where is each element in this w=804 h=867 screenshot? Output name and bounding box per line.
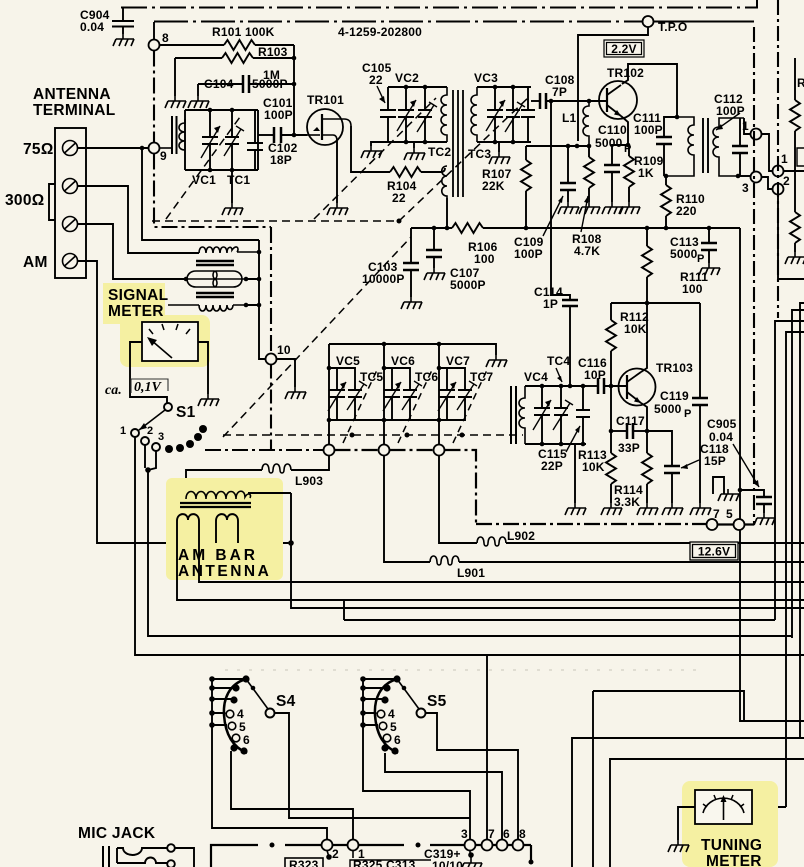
svg-text:5000: 5000 <box>654 402 682 416</box>
trimmer TC2 <box>417 87 437 142</box>
S1 contact 2 <box>141 425 153 445</box>
svg-text:7P: 7P <box>552 85 567 99</box>
gang diagonal VC6 <box>398 370 432 443</box>
svg-text:0.04: 0.04 <box>80 20 104 34</box>
svg-text:TR101: TR101 <box>307 93 344 107</box>
ground at R103 left <box>165 96 186 108</box>
svg-text:VC7: VC7 <box>446 354 470 368</box>
antenna coupling coil <box>160 119 186 150</box>
shield terminal 1 <box>742 118 762 140</box>
AM BAR ANTENNA highlight <box>166 478 283 580</box>
S1 contact dots <box>165 425 207 453</box>
main AGC column down right side <box>738 228 804 721</box>
svg-text:12.6V: 12.6V <box>698 545 730 559</box>
svg-text:VC2: VC2 <box>395 71 419 85</box>
shield terminal 5 <box>726 507 745 530</box>
VC4 tank coil <box>519 386 525 444</box>
screw terminal AM <box>63 254 78 269</box>
TR102 emitter wire <box>621 116 630 147</box>
antenna coupling coil core <box>172 116 177 154</box>
svg-text:5000: 5000 <box>595 136 623 150</box>
svg-text:5: 5 <box>239 720 246 734</box>
svg-text:100: 100 <box>474 252 495 266</box>
resistor R110 220 <box>661 176 705 230</box>
FM balun transformer <box>199 247 259 253</box>
shield chain: node9 down and right to balun top <box>154 154 271 228</box>
shield chain: node8 to node9 <box>153 51 155 143</box>
svg-text:1K: 1K <box>638 166 654 180</box>
TR101 source to ground <box>336 141 338 203</box>
svg-text:2: 2 <box>783 174 790 188</box>
resistor R323 box <box>285 851 332 867</box>
capacitor C108 7P <box>531 73 607 109</box>
headphone jack contacts 7 5 <box>713 477 739 501</box>
svg-text:100: 100 <box>682 282 703 296</box>
TR103 top rail <box>611 301 700 306</box>
svg-text:ANTENNA: ANTENNA <box>33 86 111 103</box>
S4 contact 5 <box>228 722 236 730</box>
shield terminal under VC5 <box>324 445 335 456</box>
capacitor C904 <box>112 8 134 35</box>
shield chain vertical right <box>753 27 755 524</box>
svg-text:10000P: 10000P <box>362 272 405 286</box>
winding A right leg to bus <box>199 529 804 582</box>
svg-text:R101 100K: R101 100K <box>212 25 275 39</box>
capacitor C101 100P <box>258 96 307 143</box>
bottom exit bus <box>593 691 744 721</box>
R325 C313 labels <box>350 851 431 867</box>
svg-text:10K: 10K <box>582 460 605 474</box>
svg-text:10: 10 <box>277 343 291 357</box>
svg-text:22: 22 <box>369 73 383 87</box>
S4 contact 4 <box>226 710 234 718</box>
svg-text:L1: L1 <box>562 111 577 125</box>
svg-text:22K: 22K <box>482 179 505 193</box>
svg-text:VC3: VC3 <box>474 71 498 85</box>
svg-text:VC6: VC6 <box>391 354 415 368</box>
svg-text:8: 8 <box>162 31 169 45</box>
oscillator feedback winding <box>442 166 447 198</box>
resistor R112 10K <box>606 303 649 388</box>
resistor R104 22 <box>387 167 445 205</box>
transistor TR102 <box>599 81 637 119</box>
VC3 tank box <box>477 85 531 145</box>
gang dot VC5 <box>350 433 355 438</box>
svg-text:R323: R323 <box>289 858 319 867</box>
svg-text:METER: METER <box>706 853 762 867</box>
TR103 emitter wire <box>641 403 649 433</box>
secondary winding B <box>216 514 238 529</box>
switch S4 left contact column <box>209 676 245 751</box>
svg-text:AM: AM <box>23 254 48 271</box>
terminal strip box <box>55 128 86 278</box>
svg-text:C905: C905 <box>707 417 737 431</box>
VC2 box left ground <box>371 142 388 146</box>
svg-text:P: P <box>697 253 705 265</box>
svg-text:22: 22 <box>392 191 406 205</box>
svg-text:6: 6 <box>394 733 401 747</box>
T2 secondary coil <box>713 118 752 178</box>
svg-text:18P: 18P <box>270 153 292 167</box>
svg-text:C117: C117 <box>616 414 645 428</box>
TR101 drain to R104 <box>351 126 390 172</box>
winding B legs to AM wire <box>216 529 238 543</box>
svg-text:5000P: 5000P <box>450 278 486 292</box>
screw terminal 75ohm <box>63 141 78 156</box>
gang dashed diagonal through VC3 <box>399 96 530 221</box>
svg-text:3: 3 <box>742 181 749 195</box>
terminal 2 <box>322 840 333 851</box>
terminal 7 <box>482 840 493 851</box>
capacitor C110 5000P <box>595 123 632 202</box>
svg-text:T.P.O: T.P.O <box>658 20 687 34</box>
svg-text:7: 7 <box>713 507 720 521</box>
C114 column from C108 node <box>550 101 552 295</box>
2.2V label box <box>604 40 644 57</box>
svg-text:6: 6 <box>503 827 510 841</box>
svg-text:TC6: TC6 <box>415 370 438 384</box>
variable capacitor VC6 <box>383 368 401 420</box>
variable capacitor VC2 <box>397 87 416 142</box>
svg-text:8: 8 <box>519 827 526 841</box>
svg-text:TC1: TC1 <box>227 173 250 187</box>
balun core bottom <box>196 293 234 297</box>
gang dashed diagonal through VC1 <box>166 117 240 219</box>
svg-text:R325 C313: R325 C313 <box>353 858 416 867</box>
node 10 to ground <box>277 359 296 387</box>
S5 arc contact dots <box>381 675 400 754</box>
tank ground column <box>574 444 576 503</box>
svg-text:R103: R103 <box>258 45 288 59</box>
wire AM screw down to AM bar antenna <box>78 261 289 543</box>
12.6V label box <box>690 542 738 560</box>
shield chain: down to node 10 <box>270 227 272 353</box>
svg-text:75Ω: 75Ω <box>23 141 54 158</box>
S4 column wire to terminal 2 <box>212 751 327 839</box>
svg-text:4.7K: 4.7K <box>574 244 600 258</box>
svg-text:2: 2 <box>147 425 153 437</box>
svg-text:0.04: 0.04 <box>709 430 733 444</box>
S5 contact 5 <box>379 722 387 730</box>
svg-text:100P: 100P <box>264 108 293 122</box>
meter minus wire to S1 wiper <box>130 342 167 403</box>
svg-text:TERMINAL: TERMINAL <box>33 102 115 119</box>
capacitor C109 100P <box>514 146 576 261</box>
S5 wiper wire to terminal 8 <box>426 713 519 839</box>
svg-text:SIGNAL: SIGNAL <box>108 287 168 304</box>
terminal 8 <box>513 840 524 851</box>
T1 primary coil <box>441 87 447 142</box>
svg-text:S1: S1 <box>176 404 196 421</box>
S4 rotor arc <box>224 679 247 753</box>
balun core top <box>196 261 234 265</box>
bus 620 with riser <box>344 600 775 620</box>
ferrite bar core <box>180 503 251 507</box>
svg-text:5: 5 <box>390 720 397 734</box>
svg-text:TC7: TC7 <box>470 370 493 384</box>
exit line B <box>610 759 804 867</box>
FM gang dashed rail <box>152 220 396 222</box>
SIGNAL METER highlight <box>103 283 165 324</box>
capacitor C107 5000P <box>426 226 486 292</box>
S5 column wire to terminal 3 <box>363 751 470 839</box>
T1 secondary coil <box>471 87 477 142</box>
svg-text:5000: 5000 <box>670 247 698 261</box>
VC2 tank box <box>388 85 447 145</box>
TR102 collector wire to T2 <box>622 64 677 117</box>
svg-text:3.3K: 3.3K <box>614 495 640 509</box>
variable capacitor VC1 <box>201 110 220 170</box>
second bus chain to T.P.O <box>154 21 754 23</box>
capacitor C103 10000P <box>362 228 419 297</box>
resistor R111 100 <box>642 226 708 303</box>
svg-text:100P: 100P <box>716 104 745 118</box>
T.P.O terminal <box>643 16 688 34</box>
svg-text:TC3: TC3 <box>468 147 491 161</box>
variable capacitor VC4 <box>533 386 551 444</box>
svg-text:7: 7 <box>488 827 495 841</box>
switch S1 pivot <box>164 403 196 421</box>
resistor R106 100 <box>452 223 498 266</box>
node 9 <box>149 143 168 164</box>
wire 75ohm to node9 <box>78 146 149 151</box>
trimmer TC7 <box>457 381 477 410</box>
resistor R114 3.3K <box>614 431 652 509</box>
svg-text:3: 3 <box>461 827 468 841</box>
AM tuner top rail <box>329 342 496 355</box>
outer chain boundary <box>777 0 779 318</box>
svg-text:VC1: VC1 <box>192 173 216 187</box>
winding down to AGC line <box>445 198 450 230</box>
exit riser left <box>592 691 594 867</box>
AGC line with R106 in series <box>411 227 740 229</box>
mic jack symbol <box>103 844 194 867</box>
svg-text:10P: 10P <box>584 368 606 382</box>
winding A left leg to bus <box>177 529 804 600</box>
meter plus wire to ground <box>198 342 208 394</box>
trimmer TC3 <box>505 87 525 142</box>
svg-text:L902: L902 <box>507 529 535 543</box>
svg-text:VC5: VC5 <box>336 354 360 368</box>
L901 <box>384 456 804 581</box>
svg-text:TC5: TC5 <box>360 370 383 384</box>
wire T.P.O to TR102 base column <box>578 27 648 141</box>
svg-text:10/10: 10/10 <box>432 859 463 867</box>
svg-text:220: 220 <box>676 204 697 218</box>
faint fold line <box>225 669 700 671</box>
svg-text:METER: METER <box>108 303 164 320</box>
tuning meter feed wire <box>752 806 786 808</box>
svg-text:5: 5 <box>726 507 733 521</box>
svg-text:100P: 100P <box>634 123 663 137</box>
ground under TC1 <box>231 170 233 203</box>
shield chain below node 10 <box>270 365 272 451</box>
wire 300 top screw to balun primary left <box>78 186 200 253</box>
S5 contact6 wire to terminal 6 <box>385 753 502 839</box>
svg-text:1: 1 <box>742 119 749 133</box>
node 10 <box>266 343 291 365</box>
capacitor C102 18P <box>247 110 263 170</box>
svg-text:TR103: TR103 <box>656 361 693 375</box>
shield terminal under VC7 <box>434 445 445 456</box>
T2 core <box>703 118 708 173</box>
TUNING METER highlight <box>682 781 778 867</box>
S1 contacts 2,3 joined wire down to bus <box>145 445 792 636</box>
terminal 3 <box>465 840 476 851</box>
transistor TR101 (FET) <box>307 109 351 145</box>
capacitor C114 1P <box>534 285 578 388</box>
T2 primary coil <box>664 117 694 178</box>
L903 <box>186 456 329 490</box>
resistor R107 22K <box>482 146 531 230</box>
VC6 cell <box>382 344 420 445</box>
balun middle bifilar winding <box>184 271 249 287</box>
signal meter body <box>142 322 198 361</box>
svg-text:L903: L903 <box>295 474 323 488</box>
TR103 collector wire <box>641 303 647 372</box>
capacitor C905 0.04 <box>707 417 772 513</box>
S1 contact 1 wire down to bus <box>135 437 804 655</box>
balun right bus to node 10 <box>246 240 266 359</box>
primary return column to bus <box>291 493 804 608</box>
svg-text:33P: 33P <box>618 441 640 455</box>
terminal 7 riser <box>486 655 488 839</box>
exit line A <box>572 738 804 867</box>
svg-text:3: 3 <box>158 431 164 443</box>
gang dashed diagonal through VC2 <box>314 98 436 219</box>
bias rail <box>526 144 591 149</box>
transistor TR103 <box>619 369 656 406</box>
right edge partial label box <box>797 148 804 166</box>
terminal 1 <box>348 840 359 851</box>
resistor R113 10K <box>578 386 616 503</box>
coil L1 <box>562 101 589 146</box>
S1 contact 1 <box>120 425 139 437</box>
tank capacitor at VC3 right <box>521 87 535 142</box>
svg-text:TR102: TR102 <box>607 66 644 80</box>
svg-text:VC4: VC4 <box>524 370 548 384</box>
gang dot VC7 <box>460 433 465 438</box>
node 8 <box>149 22 170 51</box>
svg-text:22P: 22P <box>541 459 563 473</box>
S4 wiper wire to terminal3 column <box>275 713 471 818</box>
svg-text:ca.: ca. <box>105 383 122 398</box>
S4 wiper <box>246 679 268 709</box>
L902 <box>439 456 804 547</box>
capacitor C116 10P <box>578 356 627 394</box>
svg-text:1: 1 <box>120 425 126 437</box>
VC5 cell <box>327 344 420 445</box>
T2 tuning arrow <box>716 113 740 130</box>
S5 contact 4 <box>377 710 385 718</box>
svg-text:TC2: TC2 <box>428 145 451 159</box>
svg-text:R: R <box>797 76 804 90</box>
tuning meter ground wire <box>678 807 695 840</box>
trimmer TC1 <box>224 110 244 170</box>
capacitor C105 <box>380 87 396 142</box>
VC7 cell <box>420 344 465 445</box>
balun bottom winding <box>168 303 248 311</box>
wire 75ohm node down to balun feed <box>142 148 259 240</box>
variable capacitor VC7 <box>438 368 456 420</box>
screw terminal 300 top <box>63 179 78 194</box>
S1 contact 3 <box>152 431 164 451</box>
resistor R101 100K <box>160 25 295 50</box>
svg-text:4-1259-202800: 4-1259-202800 <box>338 25 422 39</box>
svg-text:S4: S4 <box>276 693 296 710</box>
svg-text:1P: 1P <box>543 297 558 311</box>
svg-text:AM BAR: AM BAR <box>178 547 258 564</box>
capacitor C319 10/10 <box>424 847 474 867</box>
shield terminal 3 <box>738 172 762 196</box>
capacitor C111 100P <box>633 111 677 176</box>
capacitor C115 22P <box>576 386 590 444</box>
svg-text:TC4: TC4 <box>547 354 570 368</box>
variable capacitor VC5 <box>328 368 346 420</box>
svg-text:4: 4 <box>237 707 244 721</box>
VC3 ground <box>498 142 500 152</box>
S4 arc contact dots <box>230 675 249 754</box>
svg-text:S5: S5 <box>427 693 447 710</box>
svg-text:1: 1 <box>781 152 788 166</box>
resistor R103 1M <box>175 45 294 96</box>
variable capacitor VC3 <box>486 87 505 142</box>
right edge resistor chain <box>790 58 804 252</box>
S1 wiper arm <box>139 410 165 430</box>
svg-text:6: 6 <box>243 733 250 747</box>
svg-text:15P: 15P <box>704 454 726 468</box>
screw terminal 300 bottom <box>63 217 78 232</box>
capacitor C113 5000P <box>670 226 717 265</box>
collector node of T2 <box>675 115 680 120</box>
svg-text:300Ω: 300Ω <box>5 192 45 209</box>
svg-text:ANTENNA: ANTENNA <box>178 563 271 580</box>
connector circle 2 <box>773 174 804 279</box>
resistor R109 1K <box>624 145 664 202</box>
bottom rail <box>211 843 534 867</box>
shield chain bottom rail <box>476 523 707 525</box>
VC2 ground <box>413 142 415 148</box>
side bracket <box>49 184 55 220</box>
svg-text:10K: 10K <box>624 322 647 336</box>
trimmer TC4 <box>553 386 573 444</box>
svg-text:C119: C119 <box>660 389 689 403</box>
C114 column <box>550 101 552 300</box>
wire terminal 1 to connector 1 <box>762 134 773 171</box>
trimmer TC5 <box>347 381 367 410</box>
wire 300 bottom screw to balun mid <box>78 224 185 279</box>
switch S5 left contact column <box>360 676 396 751</box>
resistor R108 4.7K <box>572 146 602 258</box>
VC4 tank box <box>525 384 586 447</box>
AM antenna junction <box>288 540 294 546</box>
S5 wiper <box>397 679 419 709</box>
gang diagonal VC7 <box>453 370 487 443</box>
shield chain rail through terminals <box>205 449 323 451</box>
capacitor C104 5000P <box>198 75 294 96</box>
svg-text:TUNING: TUNING <box>701 837 762 854</box>
svg-text:MIC JACK: MIC JACK <box>78 825 156 842</box>
capacitor C112 100P <box>714 92 748 176</box>
T1 core <box>453 90 463 197</box>
right edge bus stubs <box>775 303 804 807</box>
bias node column <box>292 45 297 137</box>
S5 contact 6 <box>383 734 391 742</box>
ground under C904 <box>113 34 134 46</box>
VC1 tank box <box>185 108 258 173</box>
gang diagonal VC5 <box>343 370 377 443</box>
shield terminal under VC6 <box>379 445 390 456</box>
